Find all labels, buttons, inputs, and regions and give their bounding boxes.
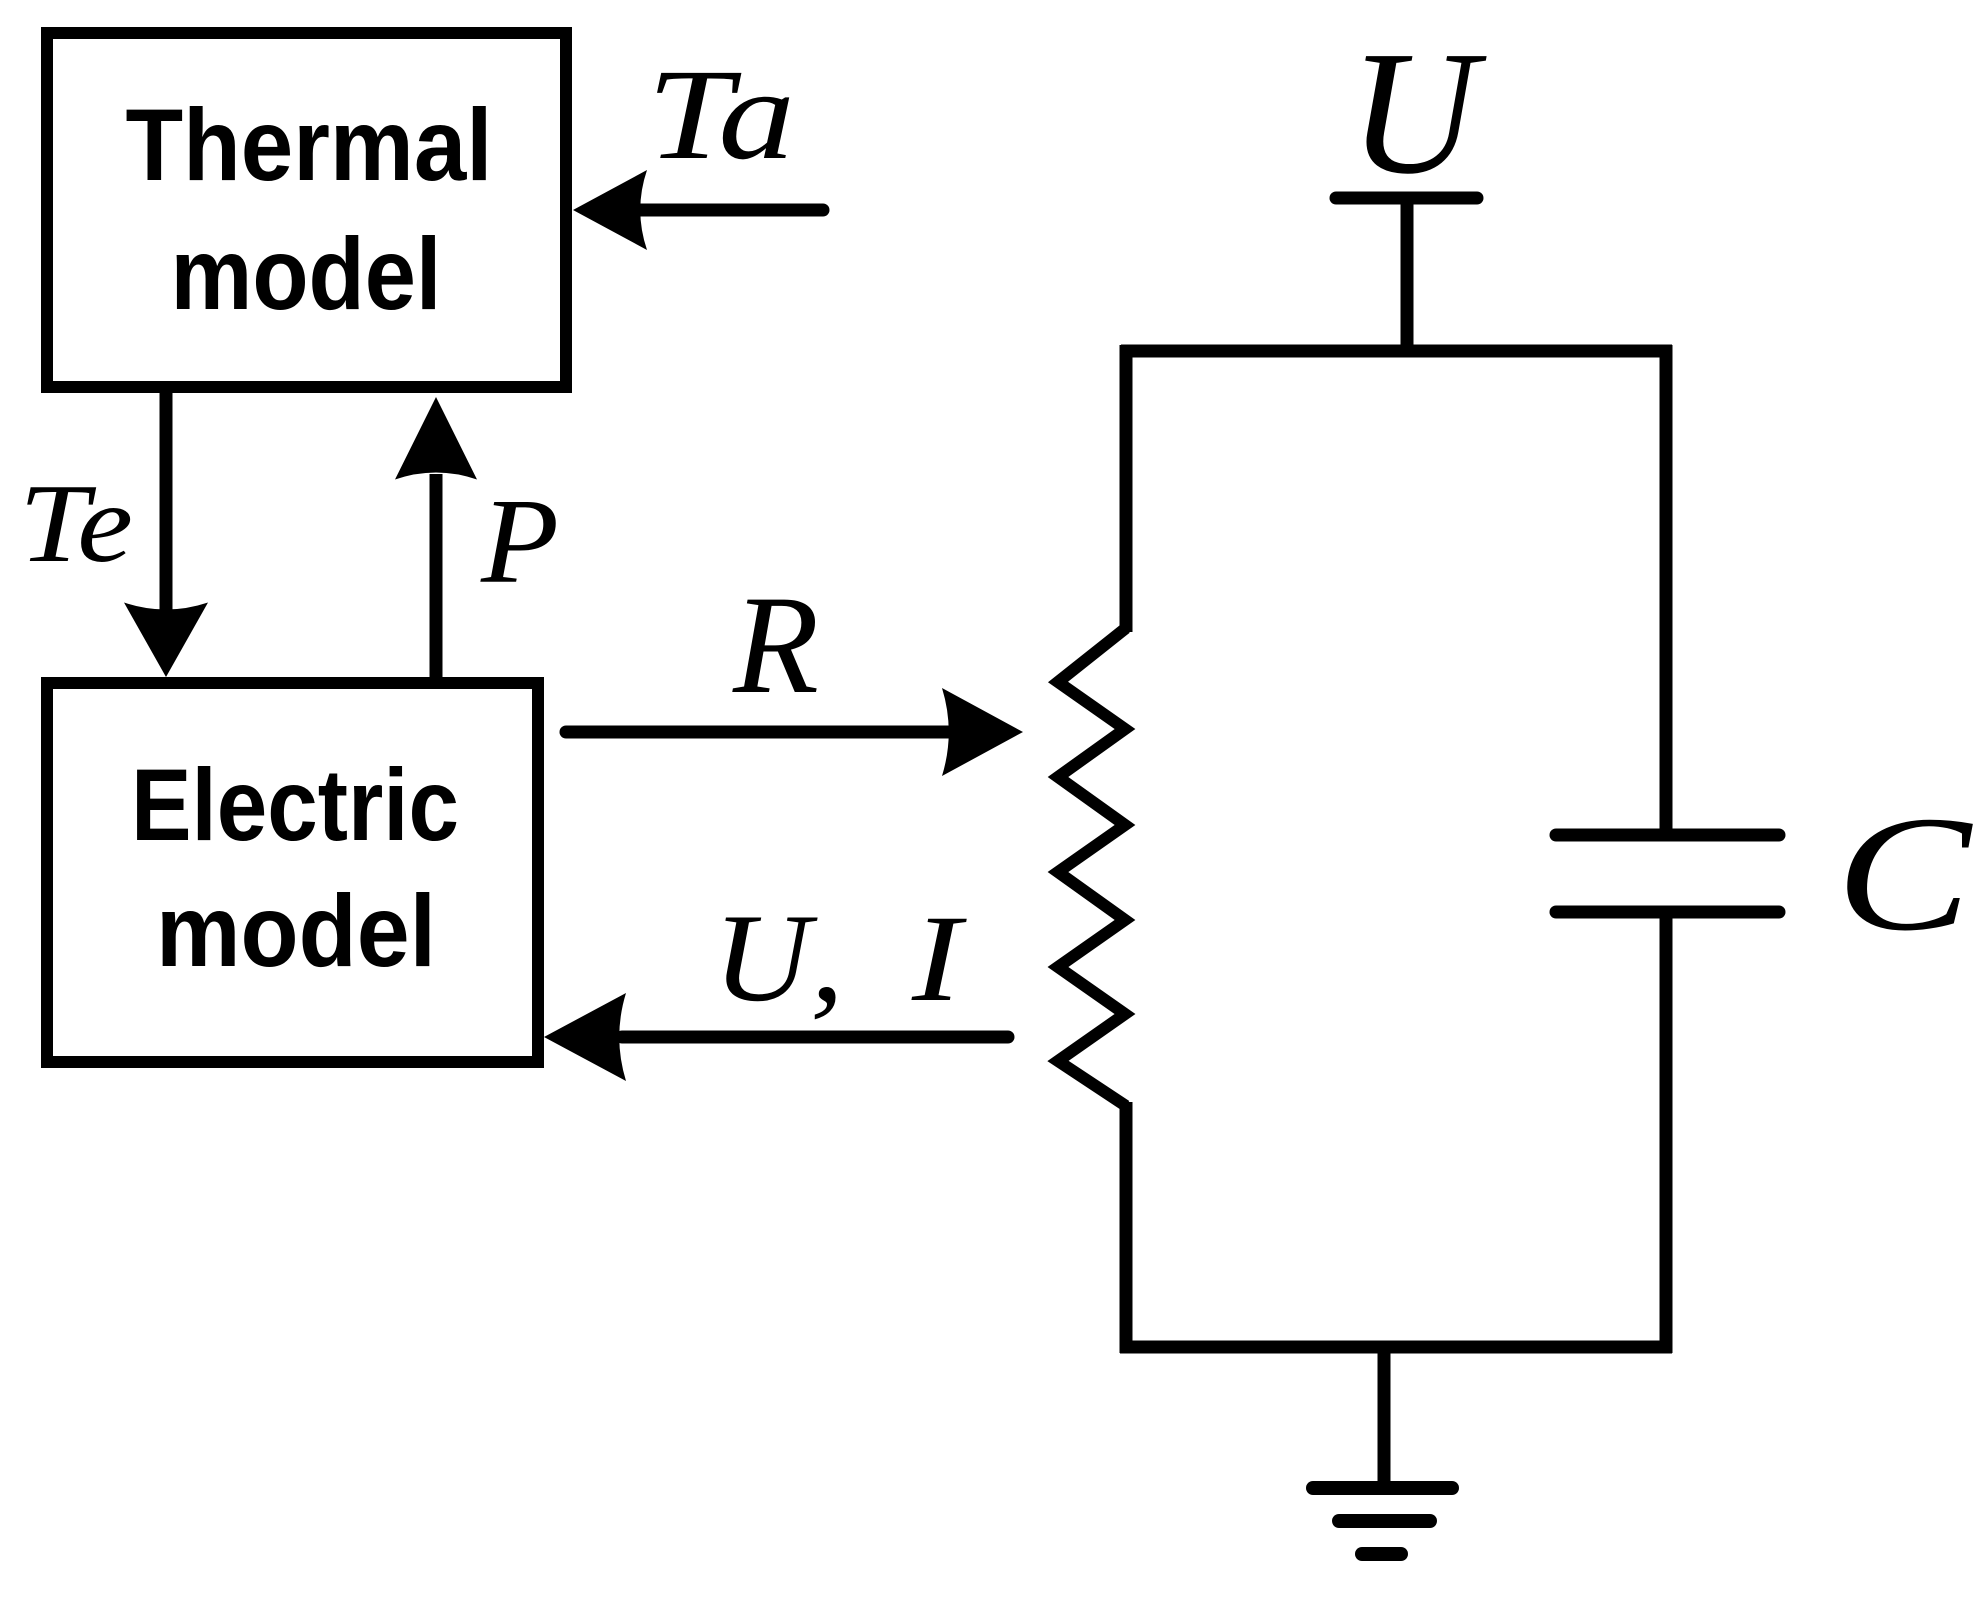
svg-text:R: R (732, 567, 819, 723)
wire top rail (1121, 345, 1672, 358)
net label U, I (713, 889, 968, 1028)
svg-text:model: model (156, 874, 436, 988)
resistor R zigzag (1058, 628, 1126, 1106)
svg-text:U,: U, (713, 889, 844, 1028)
svg-text:Ta: Ta (647, 43, 795, 187)
svg-text:I: I (911, 890, 968, 1027)
svg-text:Electric: Electric (131, 748, 459, 862)
signal arrow Te Thermal to Electric (124, 393, 208, 677)
wire right branch upper (1660, 345, 1673, 830)
svg-text:Te: Te (19, 462, 133, 586)
wire supply stub (1401, 198, 1414, 357)
svg-text:model: model (171, 217, 442, 331)
parameter arrow R Electric to resistor (566, 688, 1023, 776)
wire left branch upper (1120, 345, 1133, 632)
block U1 Thermal model (47, 33, 566, 387)
svg-text:Thermal: Thermal (126, 88, 493, 202)
wire bottom rail (1120, 1341, 1672, 1354)
signal arrow U,I resistor to Electric (544, 993, 1008, 1081)
signal arrow Ta into Thermal model (573, 170, 823, 250)
svg-text:C: C (1836, 782, 1973, 965)
wire left branch lower (1120, 1102, 1133, 1353)
supply U terminal bar (1336, 192, 1477, 205)
wire ground stem (1378, 1347, 1391, 1488)
ground symbol (1313, 1488, 1452, 1554)
block U2 Electric model (47, 683, 538, 1062)
capacitor C (1556, 835, 1779, 912)
signal arrow P Electric to Thermal (395, 397, 477, 677)
wire right branch lower (1660, 911, 1673, 1353)
svg-text:P: P (480, 474, 559, 609)
svg-text:U: U (1349, 15, 1487, 211)
